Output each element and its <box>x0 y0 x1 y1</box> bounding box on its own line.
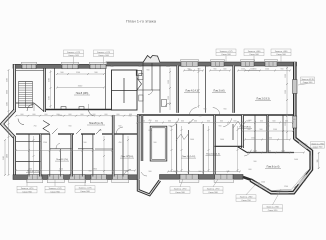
window bottom-west 5 <box>113 175 129 180</box>
svg-text:Замена +О75: Замена +О75 <box>219 51 233 53</box>
callout top A <box>64 50 84 57</box>
bay door arc <box>244 150 251 156</box>
svg-text:900: 900 <box>254 161 257 163</box>
window top-right 2 <box>210 60 224 62</box>
window top-right 4 <box>264 60 277 62</box>
svg-text:600: 600 <box>234 121 237 123</box>
callout top D <box>244 49 264 56</box>
svg-text:5400: 5400 <box>7 154 9 158</box>
svg-text:Пом.5 (23б): Пом.5 (23б) <box>76 93 89 95</box>
svg-text:Смыв 960: Смыв 960 <box>22 192 32 194</box>
svg-text:450: 450 <box>111 66 114 68</box>
svg-text:Замена +960: Замена +960 <box>266 207 279 209</box>
dim chain x104 <box>103 136 105 174</box>
callout bay S <box>263 205 283 212</box>
svg-text:900: 900 <box>254 69 257 71</box>
svg-text:900: 900 <box>89 171 92 173</box>
svg-text:1200: 1200 <box>265 69 269 71</box>
svg-text:Замена +О75: Замена +О75 <box>97 52 111 54</box>
svg-text:900: 900 <box>219 126 222 128</box>
svg-text:600: 600 <box>260 121 263 123</box>
svg-text:Замена +О76: Замена +О76 <box>48 188 62 190</box>
svg-text:900: 900 <box>59 171 62 173</box>
stair right wall <box>43 69 46 113</box>
dim chain x236 <box>237 126 239 172</box>
bay window NE <box>299 142 307 148</box>
svg-text:900: 900 <box>224 109 227 111</box>
wall low x60 <box>60 149 62 177</box>
svg-text:1100: 1100 <box>273 129 277 131</box>
corridor north wall east <box>137 114 293 116</box>
dim chain corridor west <box>16 115 137 117</box>
svg-text:Замена +960: Замена +960 <box>311 143 324 145</box>
svg-text:900: 900 <box>181 66 184 68</box>
dim chain right room top <box>245 70 290 72</box>
wc door arc <box>148 90 153 95</box>
svg-text:600: 600 <box>125 171 128 173</box>
stair north inner line <box>16 70 44 72</box>
break symbol rooms <box>176 133 189 141</box>
central shaft <box>112 70 138 110</box>
svg-text:600: 600 <box>33 114 36 116</box>
dim chain left <box>8 70 10 175</box>
shaft flue zigzag <box>137 78 142 90</box>
bay walls <box>251 139 312 193</box>
dim chain room2 top <box>238 70 260 72</box>
svg-text:600: 600 <box>168 121 171 123</box>
svg-text:600: 600 <box>224 69 227 71</box>
bay window S <box>277 192 289 194</box>
svg-text:1200: 1200 <box>285 74 287 78</box>
bottom wall to bay <box>243 177 251 180</box>
shaft cross <box>112 90 138 92</box>
svg-text:900: 900 <box>7 129 9 132</box>
wall low x29 <box>28 134 30 177</box>
right wall window <box>293 80 297 94</box>
svg-text:900: 900 <box>149 171 152 173</box>
svg-text:1500: 1500 <box>268 138 272 140</box>
svg-text:900: 900 <box>260 129 263 131</box>
svg-text:1200: 1200 <box>284 186 288 188</box>
svg-text:Смыв +965: Смыв +965 <box>68 55 80 57</box>
callout right B <box>311 142 325 149</box>
svg-text:450: 450 <box>149 120 152 122</box>
svg-text:Смыв 960: Смыв 960 <box>276 54 286 56</box>
svg-text:900: 900 <box>214 69 217 71</box>
left wall upper <box>13 65 16 112</box>
bay window SE <box>298 175 306 184</box>
wc fixture 2 <box>139 95 143 101</box>
svg-text:600: 600 <box>155 121 158 123</box>
svg-text:1000: 1000 <box>166 66 170 68</box>
dim chain x210 <box>208 126 210 172</box>
svg-text:6000: 6000 <box>7 90 9 94</box>
corridor south wall west <box>16 133 137 135</box>
svg-text:План 1-го этажа: План 1-го этажа <box>126 19 157 24</box>
right wall window low <box>293 116 297 128</box>
door arc entry <box>124 169 131 174</box>
svg-text:1400: 1400 <box>220 139 224 141</box>
door leaf sw3 <box>96 129 101 134</box>
dim chain y128 right <box>243 130 294 132</box>
dim room5 width <box>57 87 104 89</box>
svg-text:1200: 1200 <box>261 181 265 183</box>
top wall right band <box>106 62 297 66</box>
wc partition x143 <box>142 63 144 113</box>
svg-text:Смыв 960: Смыв 960 <box>208 192 218 194</box>
partition y161 left <box>16 161 40 163</box>
svg-text:450: 450 <box>119 142 122 144</box>
svg-text:600: 600 <box>293 119 296 121</box>
svg-text:1400: 1400 <box>281 151 285 153</box>
room wall below stair <box>16 102 34 104</box>
svg-text:Замена +О76: Замена +О76 <box>78 188 92 190</box>
svg-text:Пом.10 (14.5): Пом.10 (14.5) <box>206 154 220 156</box>
svg-text:600: 600 <box>181 121 184 123</box>
entrance splay <box>138 180 160 195</box>
svg-text:1500: 1500 <box>168 96 170 100</box>
svg-text:Пом.11 (14.2): Пом.11 (14.2) <box>182 156 196 158</box>
door arc corridor 1 <box>89 110 96 117</box>
left wall lower <box>13 137 16 177</box>
svg-text:Смыв 960: Смыв 960 <box>50 192 60 194</box>
svg-text:Смыв 960: Смыв 960 <box>221 54 231 56</box>
svg-text:Пом.26 (хх.б): Пом.26 (хх.б) <box>89 123 103 125</box>
svg-text:600: 600 <box>249 169 252 171</box>
svg-text:900: 900 <box>147 70 150 72</box>
svg-text:600: 600 <box>105 114 108 116</box>
callout right A <box>301 77 315 84</box>
partition jog diag <box>237 146 247 152</box>
left protrusion <box>2 110 15 138</box>
svg-text:1500: 1500 <box>49 78 51 82</box>
svg-text:1200: 1200 <box>7 78 9 82</box>
svg-text:1б00: 1б00 <box>294 159 298 161</box>
svg-text:Замена +970: Замена +970 <box>21 188 34 190</box>
door arc east room2 <box>223 118 232 127</box>
dim chain bay right <box>318 152 320 169</box>
svg-text:900: 900 <box>199 116 202 118</box>
right wall band <box>293 62 297 140</box>
wc fixture 1 <box>139 74 143 80</box>
svg-text:600: 600 <box>194 121 197 123</box>
svg-text:Замена +960: Замена +960 <box>240 197 253 199</box>
svg-text:600: 600 <box>149 130 152 132</box>
bay window SW <box>257 184 267 190</box>
svg-text:600: 600 <box>93 114 96 116</box>
svg-text:1500: 1500 <box>168 80 170 84</box>
wc fixtures east <box>162 100 167 107</box>
svg-text:Замена +960: Замена +960 <box>248 51 261 53</box>
svg-text:900: 900 <box>249 120 252 122</box>
door arc up room4 <box>190 108 197 116</box>
wall low x123 <box>122 134 124 177</box>
wall x54 <box>54 69 56 109</box>
north wall niche 1 <box>61 107 66 110</box>
svg-text:1200: 1200 <box>241 69 245 71</box>
svg-text:900: 900 <box>269 66 272 68</box>
wc partition x152 <box>151 63 153 90</box>
svg-text:900: 900 <box>227 171 230 173</box>
svg-text:600: 600 <box>69 114 72 116</box>
window top-right 1 <box>180 60 198 62</box>
svg-text:1900: 1900 <box>188 70 192 72</box>
dim chain x128 <box>127 136 129 174</box>
svg-text:1200: 1200 <box>43 142 47 144</box>
svg-text:600: 600 <box>119 126 122 128</box>
window sill west 3 <box>69 180 86 183</box>
svg-text:Пом.2 (19.3): Пом.2 (19.3) <box>256 99 269 101</box>
svg-text:600: 600 <box>207 121 210 123</box>
north wall niche 2 <box>79 107 84 110</box>
stair treads <box>19 82 33 108</box>
window bottom-east 2 <box>215 174 233 179</box>
svg-text:Пом.9 (9.6): Пом.9 (9.6) <box>239 127 250 129</box>
svg-text:600: 600 <box>273 121 276 123</box>
door arc east room1 <box>170 118 179 127</box>
callout bottom D <box>170 187 190 194</box>
window bottom-east 1 <box>180 174 198 179</box>
window top-left 2 <box>61 62 78 64</box>
svg-text:1200: 1200 <box>58 115 62 117</box>
svg-text:600: 600 <box>220 121 223 123</box>
svg-text:700: 700 <box>129 116 132 118</box>
svg-text:600: 600 <box>169 126 172 128</box>
window sill west 1 <box>27 180 43 183</box>
svg-text:600: 600 <box>81 114 84 116</box>
window sill east 2 <box>214 179 234 182</box>
wall low band x214 <box>213 115 215 174</box>
window bottom-west 3 <box>70 175 86 180</box>
wall low x82 <box>81 134 83 177</box>
svg-text:Пом.8 (хх.б): Пом.8 (хх.б) <box>267 167 280 169</box>
svg-text:900: 900 <box>84 142 87 144</box>
wall low band x40 <box>39 134 41 177</box>
wall low x177 <box>176 124 178 174</box>
window top-left 3 <box>89 62 106 64</box>
svg-text:2400: 2400 <box>28 169 32 171</box>
window sill west 4 <box>90 180 107 183</box>
bottom wall west band <box>13 175 138 180</box>
callout bottom E <box>203 187 223 194</box>
door arc room13 <box>56 143 60 149</box>
callout top C <box>216 49 236 56</box>
dim chain y171 east <box>168 171 240 173</box>
svg-text:450: 450 <box>139 66 142 68</box>
svg-text:900: 900 <box>69 126 72 128</box>
callout bottom A <box>17 186 37 193</box>
dim chain y150 <box>16 150 112 152</box>
wall x233 band <box>232 66 235 113</box>
svg-text:1600: 1600 <box>216 66 220 68</box>
svg-text:Смыв 950: Смыв 950 <box>241 200 251 202</box>
svg-text:1400: 1400 <box>190 139 194 141</box>
door leaf sw1 <box>52 129 58 135</box>
window bottom-west 2 <box>48 175 64 180</box>
callout top B <box>94 50 114 57</box>
svg-text:750: 750 <box>34 126 37 128</box>
window sill west 2 <box>47 180 64 183</box>
svg-text:900: 900 <box>199 171 202 173</box>
svg-text:1200: 1200 <box>285 122 287 126</box>
svg-text:1400: 1400 <box>267 151 271 153</box>
window bottom-west 4 <box>91 175 107 180</box>
wall low x188 <box>188 130 190 174</box>
callout bottom B <box>45 186 65 193</box>
svg-text:Пом.4 (14.1): Пом.4 (14.1) <box>185 91 198 93</box>
svg-text:Замена +О75: Замена +О75 <box>67 52 81 54</box>
callout top E <box>271 49 291 56</box>
svg-text:Смыв 950: Смыв 950 <box>268 210 278 212</box>
dim chain y170 <box>16 170 135 172</box>
door arc sw corridor <box>18 119 24 125</box>
svg-text:Смыв 960: Смыв 960 <box>80 191 90 193</box>
svg-text:600: 600 <box>117 114 120 116</box>
wall x205 <box>205 66 207 113</box>
top wall left band <box>13 64 106 68</box>
window bottom-west 1 <box>28 175 43 180</box>
door arc room12 <box>116 127 123 134</box>
dim chain x158 <box>171 126 173 172</box>
svg-text:1500: 1500 <box>251 138 255 140</box>
svg-text:600: 600 <box>206 66 209 68</box>
bay room walls <box>254 115 256 153</box>
svg-text:600: 600 <box>142 121 145 123</box>
dim chain bay inner <box>255 171 308 191</box>
dim chain x287 <box>286 65 288 140</box>
wc partition y90 <box>137 89 160 91</box>
svg-text:1400: 1400 <box>253 151 257 153</box>
svg-text:Пом.3 (хб): Пом.3 (хб) <box>213 91 224 93</box>
dim bay top <box>245 139 290 141</box>
corridor north wall west <box>46 109 112 111</box>
wall low band x242 <box>241 115 244 148</box>
svg-text:Смыв 960: Смыв 960 <box>249 54 259 56</box>
door arc up room3 <box>213 108 220 116</box>
svg-text:1400: 1400 <box>245 66 249 68</box>
wall low x203 <box>202 124 204 174</box>
duct zigzag <box>43 121 50 133</box>
svg-text:600: 600 <box>45 114 48 116</box>
partition y141 left <box>16 141 40 143</box>
closet rect <box>150 126 167 161</box>
svg-text:600: 600 <box>21 114 24 116</box>
partition y146 rooms <box>215 145 243 147</box>
dim chain x51 <box>33 136 35 174</box>
svg-text:900: 900 <box>154 142 157 144</box>
svg-text:Смыв 900: Смыв 900 <box>313 147 323 149</box>
svg-text:2800: 2800 <box>93 169 97 171</box>
dim chain x198 <box>198 68 200 108</box>
svg-text:900: 900 <box>267 126 270 128</box>
break symbol <box>234 121 247 128</box>
dim chain left2 <box>4 140 6 175</box>
svg-text:3600: 3600 <box>3 156 5 160</box>
svg-text:Пом.13 (7б): Пом.13 (7б) <box>56 159 68 161</box>
window top-left 1 <box>21 62 36 64</box>
wall low band x71 <box>70 134 72 177</box>
svg-text:450: 450 <box>99 130 102 132</box>
wall low x233 <box>232 124 234 140</box>
wall low band x138 <box>137 115 140 179</box>
top middle bay protrusion <box>143 56 160 63</box>
callout bay SW <box>236 195 256 202</box>
svg-text:900: 900 <box>281 69 284 71</box>
dim chain x170 <box>169 68 171 110</box>
svg-text:Замена +970: Замена +970 <box>207 189 220 191</box>
stair door arc <box>27 104 34 111</box>
svg-text:Замена +960: Замена +960 <box>275 51 288 53</box>
wall x105 <box>105 69 107 110</box>
svg-text:2100: 2100 <box>7 102 9 106</box>
svg-text:Смыв +960: Смыв +960 <box>98 55 110 57</box>
partition y152 right <box>247 152 294 154</box>
wall low band x113 <box>112 115 115 177</box>
callout bottom C <box>75 186 95 193</box>
svg-text:900: 900 <box>317 160 319 163</box>
dim chain room3 top <box>210 70 230 72</box>
window sill east 1 <box>179 179 199 182</box>
wall x177 band <box>176 66 179 113</box>
door leaf sw2 <box>76 129 81 134</box>
svg-text:Замена 4135: Замена 4135 <box>301 79 314 81</box>
wall x160 <box>159 66 161 113</box>
wall low x93 <box>92 134 94 177</box>
svg-text:1400: 1400 <box>173 171 177 173</box>
svg-text:1200: 1200 <box>285 90 287 94</box>
wall low band x142 <box>141 115 143 161</box>
door arc entry2 <box>141 172 147 176</box>
dim chain room5 top <box>57 73 104 75</box>
svg-text:900: 900 <box>204 109 207 111</box>
dim chain x179 <box>181 126 183 172</box>
bottom wall east band <box>160 175 244 180</box>
window top-right 3 <box>240 60 254 62</box>
svg-text:Смыв 960: Смыв 960 <box>175 192 185 194</box>
svg-text:900: 900 <box>248 129 251 131</box>
window sill west 5 <box>112 180 129 183</box>
partition y148 west <box>50 148 72 150</box>
wall low x50 <box>49 134 51 177</box>
dim chain bay mid <box>248 152 304 154</box>
svg-text:Замена +970: Замена +970 <box>174 189 187 191</box>
dim chain x50 <box>50 70 52 108</box>
svg-text:900: 900 <box>198 69 201 71</box>
bay window E <box>310 156 312 167</box>
dim chain room4 top <box>184 70 203 72</box>
dim chain corridor east <box>137 122 293 124</box>
svg-text:1500: 1500 <box>49 96 51 100</box>
